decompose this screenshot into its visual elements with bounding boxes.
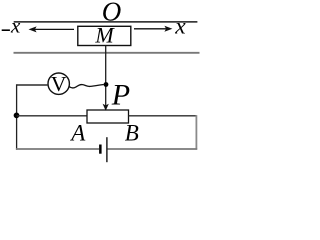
rheostat R1 body (87, 110, 129, 123)
battery BT1 negative plate (short thick) (99, 145, 102, 154)
wire voltmeter left lead (17, 84, 48, 86)
wire to rheostat terminal A (17, 115, 87, 117)
slider arrow onto rheostat (103, 104, 109, 111)
lower rail line (14, 52, 200, 54)
svg-text:x: x (10, 14, 21, 38)
node -x (axis label left) (2, 29, 10, 31)
battery BT1 positive plate (long thin) (106, 137, 108, 162)
wire from rheostat terminal B (129, 115, 197, 117)
svg-text:A: A (69, 121, 86, 146)
left axis arrow (29, 26, 75, 32)
voltmeter U1 circle (48, 73, 69, 94)
junction dot at P tap (104, 82, 109, 87)
top rail line (14, 21, 198, 23)
svg-text:V: V (51, 72, 67, 96)
right axis arrow (134, 26, 172, 32)
wire right rail vertical (195, 115, 197, 150)
svg-text:P: P (111, 79, 130, 112)
wire flexible squiggle from voltmeter to P tap (69, 85, 104, 88)
svg-text:M: M (94, 23, 115, 48)
block M box (78, 26, 131, 45)
wire left rail vertical (16, 84, 18, 150)
svg-text:x: x (174, 13, 186, 39)
svg-text:B: B (125, 121, 139, 146)
wire bottom left (16, 148, 99, 150)
wire bottom right (108, 148, 198, 150)
junction dot left (14, 113, 20, 119)
wire from M down to slider (105, 46, 107, 107)
